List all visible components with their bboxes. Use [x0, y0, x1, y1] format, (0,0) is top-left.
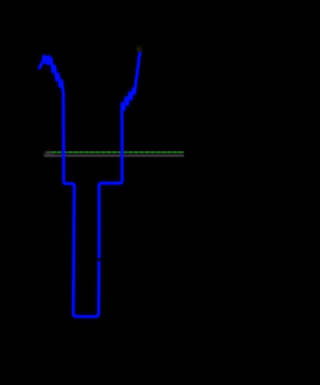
blue waveform glow underlay	[39, 53, 140, 316]
green threshold smear underlay	[46, 151, 184, 153]
olive smudge above right trace start	[139, 47, 140, 53]
green dashed threshold line	[52, 151, 184, 153]
gray baseline line	[44, 154, 184, 157]
blue waveform trace	[39, 53, 140, 316]
gray smudge at left end of threshold	[44, 152, 53, 156]
notch gap on right pulse edge	[96, 258, 103, 261]
